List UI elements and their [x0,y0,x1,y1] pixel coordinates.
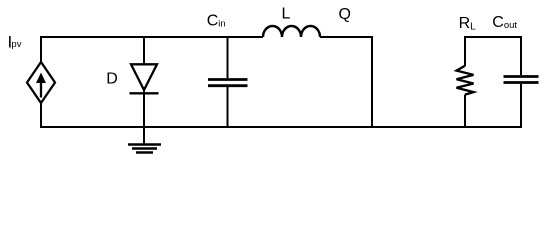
ground bar 1 [128,143,161,145]
wire Cin top [227,36,229,78]
svg-text:Q: Q [339,6,351,23]
diode D triangle [131,64,157,90]
wire RL bottom stub [464,95,466,128]
diode D cathode bar [130,92,159,94]
svg-text:RL: RL [459,15,477,32]
wire Cout top stub [520,36,522,75]
inductor L coil [263,26,320,37]
ground bar 3 [136,151,153,153]
capacitor Cin bottom plate [208,84,248,87]
current source arrow [36,73,46,98]
capacitor Cout top plate [504,75,539,78]
wire diode bottom to rail [143,90,145,127]
wire diode top [143,36,145,64]
wire left vertical above current source [40,36,42,62]
wire ground stub [143,127,145,144]
svg-text:Cout: Cout [492,14,517,31]
wire output top rail [465,36,521,38]
current source Ipv diamond [27,62,55,103]
wire RL top stub [464,36,466,66]
resistor RL zigzag [457,66,474,95]
wire top rail left segment [40,36,263,38]
capacitor Cin top plate [208,78,248,81]
wire left vertical below current source [40,103,42,128]
svg-text:Ipv: Ipv [8,33,22,52]
wire bottom rail [40,126,521,128]
ground bar 2 [132,147,157,149]
wire Q vertical drop [371,36,373,127]
wire top rail right segment [320,36,373,38]
svg-text:D: D [106,70,118,87]
svg-text:Cin: Cin [207,13,226,30]
svg-text:L: L [282,6,291,23]
wire Cin bottom [227,87,229,127]
capacitor Cout bottom plate [504,81,539,84]
wire Cout bottom stub [520,84,522,128]
